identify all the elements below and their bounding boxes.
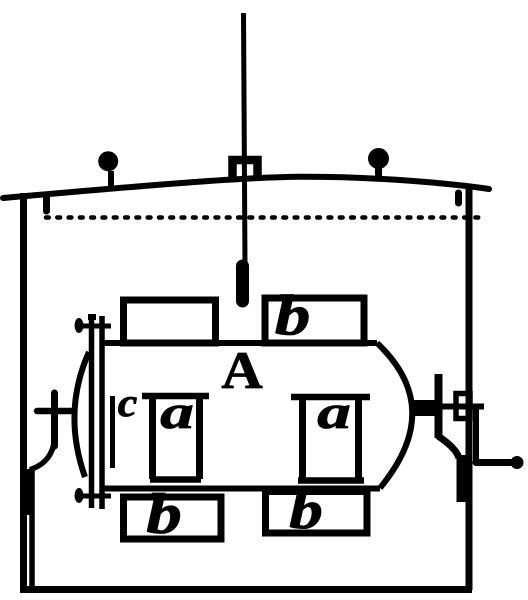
wall bearing bracket <box>456 394 470 419</box>
svg-text:b: b <box>146 483 182 546</box>
left coil a left side <box>149 396 156 479</box>
left axle shaft <box>37 408 74 415</box>
svg-text:b: b <box>275 284 311 347</box>
right knob stem <box>375 167 382 180</box>
left pedestal shading bar <box>21 469 34 515</box>
flange disc line 2 <box>99 316 105 509</box>
right axle thick stub <box>411 400 436 416</box>
svg-text:b: b <box>289 481 323 540</box>
lid (curved cover line) <box>3 177 489 198</box>
left coil a bottom bar <box>150 476 201 483</box>
top left block <box>124 300 216 343</box>
lid right tick <box>455 193 462 203</box>
drum A right end arc <box>377 343 412 488</box>
crank support curve <box>438 436 459 458</box>
bottom right block b <box>266 492 368 534</box>
central shaft rod <box>244 13 246 266</box>
lid bearing bracket <box>233 160 258 180</box>
svg-text:c: c <box>118 382 138 426</box>
drum A bottom edge <box>104 486 380 492</box>
flange top bolt shaft <box>79 324 111 329</box>
left knob stem <box>108 171 114 188</box>
crank handle ball <box>511 456 524 469</box>
left pedestal outline <box>32 438 55 587</box>
right coil a bottom bar <box>298 477 364 484</box>
right coil a right side <box>355 397 362 480</box>
outer box left wall <box>20 193 27 590</box>
crank support bar <box>435 374 443 438</box>
left coil a right side <box>196 396 203 479</box>
drum A left end arc <box>74 352 89 477</box>
left coil a top bar <box>142 393 209 400</box>
right shaft through wall <box>430 404 484 410</box>
right knob <box>368 148 389 169</box>
flange bottom bolt head <box>75 488 84 503</box>
left knob <box>98 151 118 171</box>
crank vertical link <box>473 408 479 462</box>
inner end plate line c <box>110 396 115 468</box>
outer box right wall <box>466 185 473 590</box>
flange top bolt head <box>75 318 84 333</box>
left handle bar <box>51 393 58 446</box>
flange bottom bolt shaft <box>79 494 111 499</box>
central rod thick lower end <box>236 266 249 301</box>
top right block b <box>265 298 364 343</box>
svg-text:a: a <box>317 385 351 438</box>
svg-text:A: A <box>221 341 263 400</box>
drum A top edge <box>104 340 377 346</box>
bottom left block b <box>124 497 222 539</box>
flange disc line 1 <box>89 315 95 508</box>
crank support shading bar <box>457 455 472 502</box>
right coil a top bar <box>291 394 370 401</box>
flange line1 top cap <box>88 314 96 320</box>
crank arm <box>476 459 512 466</box>
dotted liquid line <box>46 215 480 220</box>
svg-text:a: a <box>160 385 194 438</box>
outer box bottom <box>20 586 472 593</box>
right coil a left side <box>299 397 306 480</box>
lid left tick <box>43 197 50 211</box>
